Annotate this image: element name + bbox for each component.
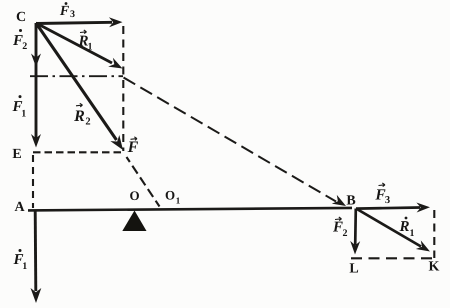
node O1 [165,187,181,205]
svg-text:1: 1 [88,42,93,53]
label F (tip of R2) [127,137,139,156]
svg-text:F: F [127,139,139,156]
svg-text:2: 2 [22,41,27,52]
label F1 (lower) [12,249,27,272]
svg-text:1: 1 [22,261,27,272]
label F3 (right) [374,183,390,206]
force F2 arrow from B [354,209,357,246]
svg-text:B: B [346,194,355,209]
dash-dot axis line through F2 arrowhead level [30,75,123,77]
svg-text:K: K [429,260,440,275]
dashed vertical line F3 tip down to K [433,210,435,258]
svg-text:3: 3 [70,9,75,20]
dashed horizontal line E to F [33,151,122,153]
long dashed transfer line to B with arrowhead [124,78,337,202]
beam (lever) A to B [28,208,352,211]
dashed vertical construction line (right side of C parallelogram) [122,26,124,151]
force F3 arrow from C [36,22,112,23]
force F2 arrowhead [31,54,41,68]
label R1 (upper) [77,30,92,53]
label R2 [73,103,90,127]
svg-text:L: L [349,262,358,277]
svg-text:O: O [129,188,139,203]
svg-text:R: R [73,108,85,125]
force F1 arrow below A [34,210,37,291]
svg-text:A: A [14,200,25,215]
dashed diagonal line F down to O1 [127,157,160,207]
force F1 arrowhead (upper) [31,134,41,148]
label F2 (right) [332,217,348,239]
svg-text:1: 1 [176,195,181,205]
resultant R1 arrow from C [36,23,112,63]
svg-text:E: E [12,147,21,162]
resultant R1 arrow from B [356,209,421,247]
svg-text:R: R [398,219,409,235]
svg-text:C: C [16,10,26,25]
svg-text:1: 1 [410,228,415,239]
resultant R2 arrow from C [36,23,117,140]
label F2 (left of C) [12,29,27,52]
fulcrum triangle at O [122,211,146,232]
label F3 (top) [59,2,75,20]
label F1 (upper) [11,95,26,119]
svg-text:2: 2 [85,117,90,128]
svg-text:O: O [165,187,175,202]
dashed horizontal line L to K [351,257,437,259]
label R1 (right) [398,217,414,239]
dashed vertical line E down to A [32,155,34,208]
svg-text:2: 2 [343,228,348,239]
svg-text:1: 1 [21,108,26,119]
force F3 arrow from B [356,208,420,209]
svg-text:3: 3 [385,195,390,206]
wire F2/F1 vertical line from C [35,23,38,140]
svg-text:F: F [59,4,70,19]
svg-text:F: F [332,219,343,235]
